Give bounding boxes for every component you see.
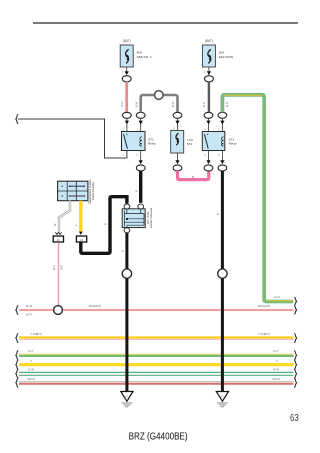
fuse F3 bottom connector (173, 153, 182, 171)
connector B1 box (53, 236, 63, 242)
brace right of W-R (294, 306, 296, 314)
svg-text:Relay: Relay (229, 142, 237, 146)
relay R2 connectors (top) (204, 112, 227, 131)
wire G-Y horizontal (19, 349, 294, 356)
svg-text:W-R: W-R (120, 101, 124, 107)
svg-text:Switch Assembly: Switch Assembly (92, 181, 95, 201)
svg-text:W-R: W-R (26, 304, 33, 308)
svg-text:G-O: G-O (225, 101, 229, 107)
svg-text:(BAT): (BAT) (205, 39, 213, 43)
brace left of G-Y (16, 351, 18, 360)
relay R1 connectors (top) (123, 112, 146, 131)
svg-text:W-R: W-R (53, 265, 56, 270)
svg-text:63: 63 (290, 412, 299, 424)
svg-text:EC: EC (221, 396, 225, 399)
ground right (216, 392, 228, 407)
svg-text:(BAT): (BAT) (123, 39, 131, 43)
green wire G-O relay R2 to right edge (222, 95, 293, 302)
wire Y horizontal (19, 359, 294, 365)
svg-text:B-R: B-R (202, 102, 206, 107)
svg-text:B: B (216, 213, 220, 215)
ground left (121, 392, 133, 407)
fuse F3 7.5A ST2 (171, 131, 193, 154)
wire Y-P(M/T) horizontal (19, 332, 294, 339)
svg-text:P: P (192, 175, 194, 179)
inline connector circle on left ground wire (122, 269, 131, 278)
fuse F3 top connector (173, 112, 182, 130)
svg-text:B-W: B-W (171, 101, 175, 107)
wire B-R fuse F2 to relay R2 (202, 82, 209, 113)
relay R2 ST Relay (202, 132, 237, 151)
svg-text:ST2: ST2 (187, 142, 193, 146)
svg-text:BRZ (G4400BE): BRZ (G4400BE) (129, 432, 188, 443)
brace right of G-Y (294, 351, 296, 360)
relay R1 ST2 Relay (122, 132, 157, 151)
wire W-R fuse F1 to relay R1 (120, 82, 127, 113)
brace right of Y (294, 360, 296, 369)
wire W-R(A/T) horizontal (19, 304, 294, 316)
svg-text:Y: Y (74, 224, 78, 226)
svg-text:GR-R: GR-R (272, 377, 280, 381)
svg-text:(A/T): (A/T) (26, 312, 33, 316)
junction circle A on gray wire (155, 91, 164, 100)
connector B2 arrow (79, 232, 83, 235)
brace left of Y-P (16, 333, 18, 342)
black ground wire right (216, 171, 222, 392)
svg-text:B: B (134, 190, 138, 192)
wire GR-R horizontal (19, 377, 294, 384)
svg-text:B-W: B-W (134, 101, 138, 107)
svg-text:G-W: G-W (273, 367, 279, 371)
pink thin wire to junction (53, 242, 63, 306)
svg-text:Relay: Relay (148, 142, 156, 146)
svg-text:G-Y: G-Y (273, 349, 278, 353)
svg-text:G-Y: G-Y (28, 349, 33, 353)
connector B1 arrows (55, 232, 61, 234)
svg-text:Y-P(M/T): Y-P(M/T) (30, 332, 42, 336)
svg-text:EC: EC (125, 396, 129, 399)
relay R2 bottom connectors (204, 151, 227, 171)
thin wire relay R1 switch to left edge (18, 119, 127, 158)
junction circle on W-R wire (54, 306, 63, 315)
svg-text:G-W: G-W (28, 367, 34, 371)
switch assembly L7 park/neutral position (58, 179, 96, 205)
brace right of Y-P (294, 333, 296, 342)
brace left of W-R (16, 305, 18, 314)
connector B2 box (76, 236, 86, 242)
svg-text:(A/T): (A/T) (61, 264, 64, 270)
wire G-W horizontal (19, 367, 294, 375)
brace left of thin wire (16, 114, 18, 123)
fuse F1 40A ABS NO.1 (120, 39, 152, 82)
relay R1 bottom pin stubs (123, 151, 145, 171)
top border rule (33, 22, 298, 24)
brace left of G-W (16, 369, 18, 378)
svg-text:W-R(A/T): W-R(A/T) (258, 304, 271, 308)
svg-text:50A: 50A (219, 51, 225, 55)
yellow wire Y switch to connector B2 (74, 201, 80, 232)
brace left of Y (16, 360, 18, 369)
svg-text:Y: Y (30, 359, 32, 363)
fuse F2 50A EZ2 MAIN (202, 39, 233, 82)
brace right of G-O (294, 297, 296, 305)
brace right of GR-R (294, 378, 296, 387)
junction connector J1 (122, 204, 153, 233)
black wire from connector B2 to junction connector (81, 197, 127, 254)
svg-text:40A: 40A (137, 51, 143, 55)
svg-text:Y-P(M/T): Y-P(M/T) (258, 332, 270, 336)
pink wire P fuse F3 to relay R2 (178, 171, 209, 180)
svg-text:21: 21 (57, 238, 60, 242)
gray wire relay R1 to fuse F3 (134, 95, 177, 112)
svg-text:Y: Y (276, 359, 278, 363)
svg-text:B: B (104, 223, 108, 225)
svg-text:Junction Connector: Junction Connector (150, 208, 153, 229)
white wire W from switch to connector B1 (53, 201, 70, 232)
svg-text:L7: L7 (88, 200, 92, 204)
inline connector circle on right ground wire (218, 269, 227, 278)
brace left of GR-R (16, 378, 18, 387)
svg-text:GR-R: GR-R (27, 377, 35, 381)
black ground wire left (121, 233, 127, 392)
svg-text:EZ2 MAIN: EZ2 MAIN (219, 55, 233, 59)
svg-text:W-R(A/T): W-R(A/T) (89, 304, 102, 308)
svg-text:21: 21 (80, 238, 83, 242)
svg-text:B: B (121, 250, 125, 252)
black wire relay R1 coil to junction connector (134, 171, 140, 203)
svg-text:ABS NO. 1: ABS NO. 1 (137, 55, 152, 59)
svg-text:G-O: G-O (274, 295, 280, 299)
brace right of G-W (294, 369, 296, 378)
